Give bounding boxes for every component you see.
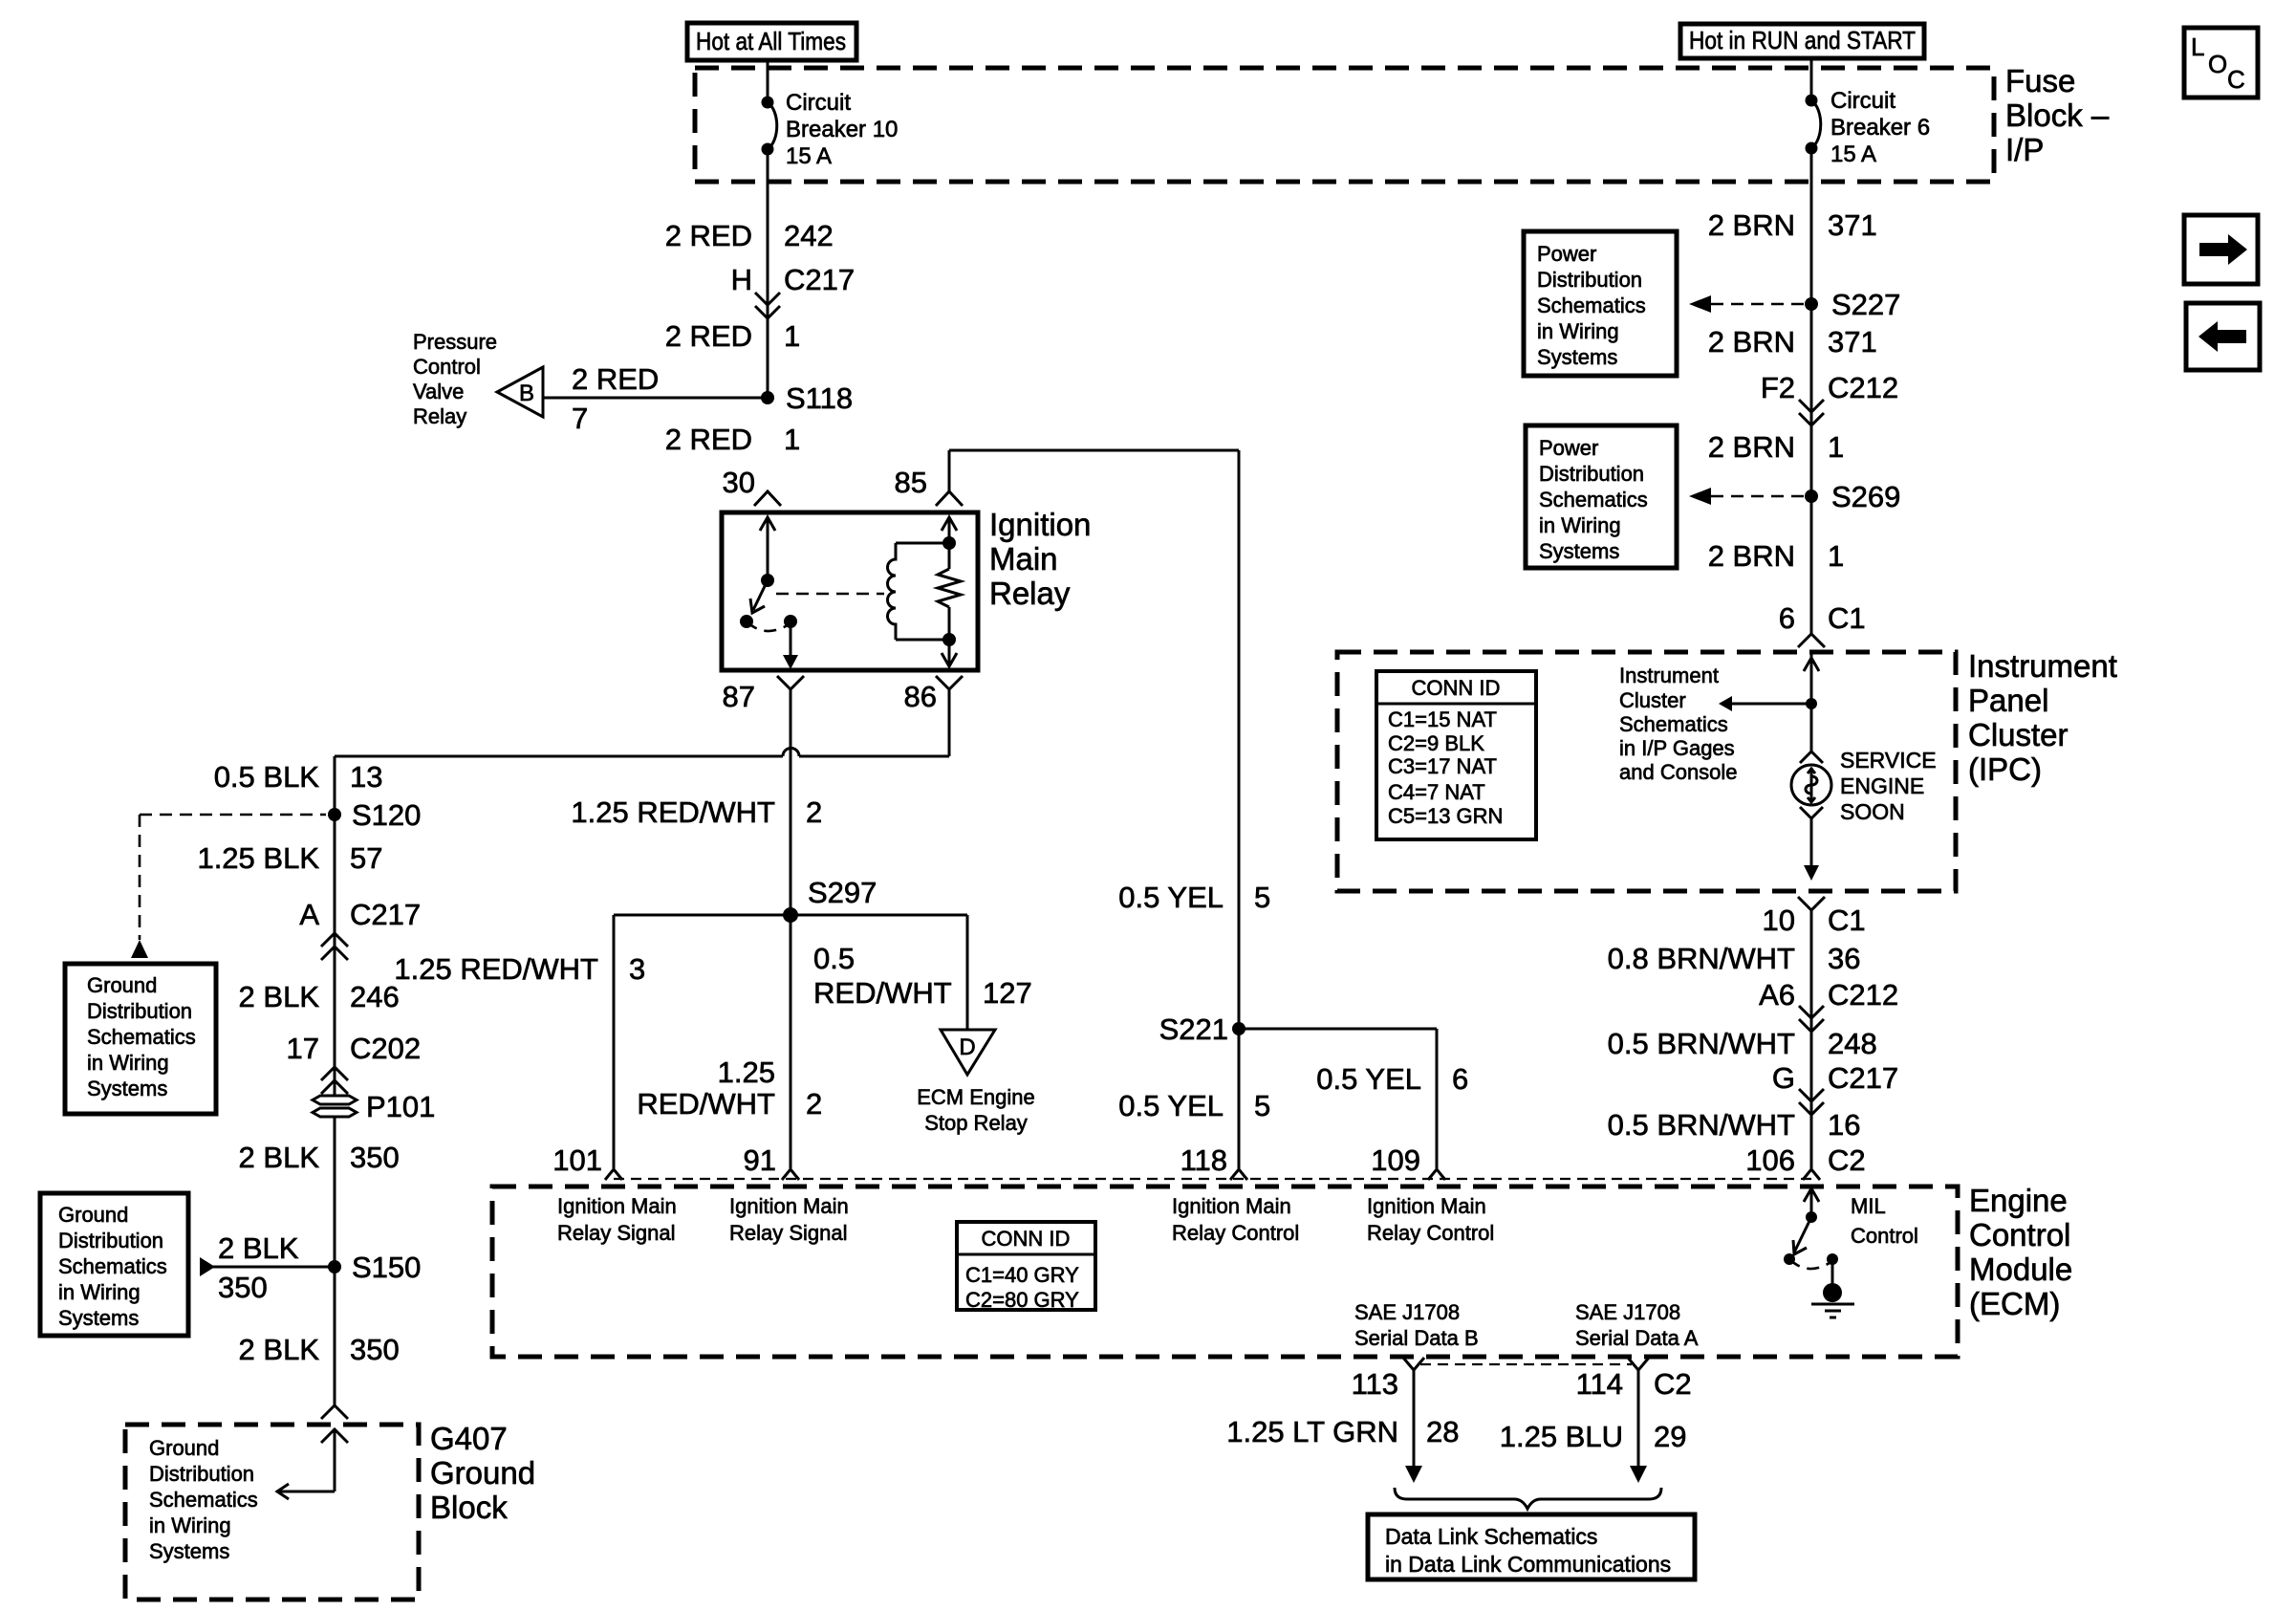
svg-text:2 BLK: 2 BLK bbox=[239, 980, 320, 1013]
svg-text:3: 3 bbox=[629, 952, 645, 986]
wire: ground path corner down from 86 feed bbox=[334, 756, 336, 1096]
svg-text:RED/WHT: RED/WHT bbox=[637, 1087, 775, 1121]
wire: pin 87 down to S297 bbox=[790, 689, 792, 915]
svg-text:5: 5 bbox=[1254, 881, 1270, 914]
node: junction to instrument cluster schematics bbox=[1806, 698, 1817, 709]
connector C1 pin 10 label bbox=[1763, 903, 1866, 937]
svg-text:CONN ID: CONN ID bbox=[982, 1227, 1071, 1251]
wire label: 2 BLK 350 (above S150) bbox=[239, 1141, 400, 1174]
connector C1 pin 6 label bbox=[1779, 601, 1866, 635]
label box: Hot at All Times bbox=[687, 23, 856, 60]
IPC exit chevron bbox=[1798, 897, 1825, 910]
svg-text:85: 85 bbox=[895, 466, 927, 499]
label: Ignition Main Relay Signal (pin 101) bbox=[557, 1194, 677, 1245]
svg-text:371: 371 bbox=[1828, 325, 1877, 359]
grommet P101 bbox=[313, 1090, 435, 1123]
svg-text:S221: S221 bbox=[1159, 1012, 1228, 1046]
label: SAE J1708 Serial Data B bbox=[1354, 1300, 1479, 1350]
svg-text:Relay: Relay bbox=[989, 576, 1071, 611]
svg-text:C2=80 GRY: C2=80 GRY bbox=[965, 1288, 1079, 1312]
wire label: 0.5 BLK 13 bbox=[214, 760, 383, 794]
svg-text:Circuit: Circuit bbox=[786, 90, 851, 116]
wire: CB6 down to S227 bbox=[1810, 148, 1813, 304]
svg-text:Distribution: Distribution bbox=[1537, 268, 1642, 292]
svg-text:Ignition Main: Ignition Main bbox=[1172, 1194, 1291, 1218]
MIL control switch bbox=[1784, 1188, 1838, 1269]
svg-text:1: 1 bbox=[1828, 539, 1844, 573]
svg-text:H: H bbox=[731, 263, 752, 296]
relay contact dashed throw arc bbox=[747, 621, 791, 631]
connector C217 pin A label bbox=[299, 898, 421, 931]
svg-text:242: 242 bbox=[784, 219, 834, 252]
svg-text:15 A: 15 A bbox=[1830, 142, 1876, 167]
splice S269 with dashed reference arrow bbox=[1689, 480, 1900, 513]
svg-text:Distribution: Distribution bbox=[149, 1462, 254, 1486]
legend box LOC bbox=[2184, 28, 2258, 98]
svg-text:MIL: MIL bbox=[1851, 1194, 1886, 1218]
svg-text:A6: A6 bbox=[1759, 978, 1795, 1012]
svg-text:0.5 BRN/WHT: 0.5 BRN/WHT bbox=[1608, 1108, 1795, 1142]
svg-text:Panel: Panel bbox=[1968, 683, 2048, 718]
svg-text:Systems: Systems bbox=[1539, 539, 1619, 563]
svg-text:Module: Module bbox=[1969, 1252, 2072, 1287]
svg-text:Schematics: Schematics bbox=[1537, 294, 1646, 317]
svg-text:371: 371 bbox=[1828, 208, 1877, 242]
svg-text:118: 118 bbox=[1180, 1143, 1227, 1177]
svg-text:Cluster: Cluster bbox=[1968, 717, 2069, 752]
svg-text:L: L bbox=[2191, 33, 2204, 61]
ECM pin entry chevrons 101 91 118 109 106 bbox=[605, 1169, 1820, 1180]
svg-text:2 RED: 2 RED bbox=[665, 319, 752, 353]
wire label: 2 BRN 1 (below S269) bbox=[1708, 539, 1845, 573]
svg-text:C217: C217 bbox=[1828, 1061, 1898, 1095]
svg-text:Serial Data A: Serial Data A bbox=[1575, 1326, 1699, 1350]
svg-text:6: 6 bbox=[1779, 601, 1795, 635]
pin 85 chevron bbox=[936, 491, 963, 506]
svg-text:C212: C212 bbox=[1828, 371, 1898, 404]
svg-text:Stop Relay: Stop Relay bbox=[924, 1111, 1028, 1135]
svg-text:Instrument: Instrument bbox=[1619, 664, 1719, 687]
label: Fuse Block - I/P bbox=[2005, 63, 2110, 167]
splice S150 bbox=[328, 1251, 421, 1284]
svg-text:in Wiring: in Wiring bbox=[58, 1280, 141, 1304]
svg-text:Distribution: Distribution bbox=[58, 1229, 163, 1252]
svg-text:2 BRN: 2 BRN bbox=[1708, 325, 1795, 359]
connector C202 inline chevrons bbox=[321, 1067, 348, 1094]
svg-text:86: 86 bbox=[904, 680, 937, 713]
svg-text:Schematics: Schematics bbox=[149, 1488, 258, 1512]
svg-text:5: 5 bbox=[1254, 1089, 1270, 1122]
connector C217 inline chevrons (lower) bbox=[1799, 1089, 1824, 1115]
wire label: 1.25 LT GRN 28 bbox=[1226, 1415, 1459, 1448]
reference box: Power Distribution Schematics in Wiring Systems (upper) bbox=[1524, 231, 1677, 376]
svg-text:G: G bbox=[1772, 1061, 1795, 1095]
svg-text:350: 350 bbox=[218, 1271, 268, 1304]
svg-text:2: 2 bbox=[806, 795, 822, 829]
svg-text:RED/WHT: RED/WHT bbox=[813, 976, 952, 1010]
svg-text:in Wiring: in Wiring bbox=[87, 1051, 169, 1075]
svg-text:Breaker 10: Breaker 10 bbox=[786, 117, 898, 142]
svg-text:SAE J1708: SAE J1708 bbox=[1354, 1300, 1460, 1324]
svg-text:Schematics: Schematics bbox=[58, 1254, 167, 1278]
svg-text:1: 1 bbox=[1828, 430, 1844, 464]
circuit breaker CB6 bbox=[1806, 88, 1931, 167]
wire: S221 branch right down to pin 109 bbox=[1239, 1029, 1437, 1168]
svg-text:17: 17 bbox=[287, 1032, 319, 1065]
ground symbol in ECM bbox=[1811, 1259, 1854, 1317]
svg-text:246: 246 bbox=[350, 980, 400, 1013]
svg-text:114: 114 bbox=[1576, 1367, 1623, 1401]
svg-text:C217: C217 bbox=[784, 263, 855, 296]
svg-text:0.8 BRN/WHT: 0.8 BRN/WHT bbox=[1608, 942, 1795, 975]
svg-text:0.5 BLK: 0.5 BLK bbox=[214, 760, 320, 794]
svg-text:Ignition: Ignition bbox=[989, 507, 1091, 542]
wire label: 2 BLK 246 bbox=[239, 980, 400, 1013]
svg-text:2 RED: 2 RED bbox=[665, 423, 752, 456]
svg-text:C4=7 NAT: C4=7 NAT bbox=[1388, 780, 1485, 804]
svg-text:57: 57 bbox=[350, 841, 382, 875]
svg-text:127: 127 bbox=[983, 976, 1032, 1010]
svg-text:Pressure: Pressure bbox=[413, 330, 497, 354]
legend box: right arrow bbox=[2184, 215, 2258, 284]
connector C2 pin 106 label bbox=[1745, 1143, 1865, 1177]
svg-text:Control: Control bbox=[413, 355, 481, 379]
svg-text:Hot at All Times: Hot at All Times bbox=[696, 27, 846, 55]
pin 30 chevron bbox=[754, 491, 781, 506]
lamp socket chevron top bbox=[1800, 751, 1823, 763]
svg-text:Ground: Ground bbox=[430, 1455, 535, 1491]
relay output contact (pin 87) bbox=[783, 615, 798, 669]
wire: pin 86 down to corner bbox=[948, 689, 951, 756]
label box: Hot in RUN and START bbox=[1680, 24, 1924, 58]
svg-text:29: 29 bbox=[1654, 1420, 1686, 1453]
svg-text:Fuse: Fuse bbox=[2005, 63, 2075, 98]
splice S227 with dashed reference arrow bbox=[1689, 288, 1900, 321]
wire: lamp down to IPC bottom with arrow bbox=[1804, 818, 1819, 881]
svg-text:113: 113 bbox=[1352, 1367, 1398, 1401]
wire: 86 corner left to ground path with hop over 87 wire bbox=[335, 749, 949, 757]
label: Engine Control Module (ECM) bbox=[1969, 1183, 2072, 1321]
svg-text:15 A: 15 A bbox=[786, 143, 832, 169]
svg-text:C2: C2 bbox=[1828, 1143, 1866, 1177]
reference box: Data Link Schematics in Data Link Communications bbox=[1368, 1514, 1695, 1579]
svg-text:B: B bbox=[519, 381, 534, 406]
svg-text:2 BRN: 2 BRN bbox=[1708, 208, 1795, 242]
svg-text:in I/P Gages: in I/P Gages bbox=[1619, 736, 1735, 760]
svg-text:Control: Control bbox=[1969, 1217, 2070, 1252]
reference box: Power Distribution Schematics in Wiring Systems (lower) bbox=[1526, 425, 1677, 568]
reference box: Ground Distribution Schematics in Wiring Systems (upper) bbox=[65, 964, 216, 1114]
svg-text:in Wiring: in Wiring bbox=[1539, 513, 1621, 537]
svg-text:Distribution: Distribution bbox=[87, 999, 192, 1023]
svg-text:1.25 BLK: 1.25 BLK bbox=[197, 841, 319, 875]
label: Ignition Main Relay Control (pin 118) bbox=[1172, 1194, 1299, 1245]
splice S221 bbox=[1159, 1012, 1245, 1046]
svg-text:350: 350 bbox=[350, 1141, 400, 1174]
svg-text:87: 87 bbox=[723, 680, 755, 713]
label: MIL Control bbox=[1851, 1194, 1918, 1248]
svg-text:7: 7 bbox=[572, 402, 588, 435]
svg-text:91: 91 bbox=[744, 1143, 776, 1177]
reference arrow wire into S150 bbox=[200, 1231, 335, 1304]
svg-text:0.5 BRN/WHT: 0.5 BRN/WHT bbox=[1608, 1027, 1795, 1060]
svg-text:Systems: Systems bbox=[1537, 345, 1617, 369]
svg-text:(ECM): (ECM) bbox=[1969, 1286, 2060, 1321]
wire: S297 horizontal bbox=[614, 914, 967, 917]
wire: IPC to ECM bbox=[1810, 910, 1813, 1168]
wire label: 1.25 BLK 57 bbox=[197, 841, 382, 875]
ECM exit chevron pin 114 bbox=[1628, 1358, 1649, 1370]
thin dashed pin rail along ECM top bbox=[614, 1178, 1811, 1180]
svg-text:1.25 BLU: 1.25 BLU bbox=[1500, 1420, 1623, 1453]
svg-text:0.5 YEL: 0.5 YEL bbox=[1118, 881, 1224, 914]
svg-text:28: 28 bbox=[1426, 1415, 1459, 1448]
connector C217 inline chevrons bbox=[755, 293, 780, 318]
svg-text:1.25 RED/WHT: 1.25 RED/WHT bbox=[571, 795, 775, 829]
wire: P101 down to G407 bbox=[334, 1117, 336, 1405]
svg-text:SERVICE: SERVICE bbox=[1840, 748, 1937, 773]
terminal D triangle ECM Engine Stop Relay bbox=[941, 1030, 995, 1075]
svg-text:Systems: Systems bbox=[58, 1306, 139, 1330]
label: Instrument Panel Cluster (IPC) bbox=[1968, 648, 2117, 787]
svg-text:2 BRN: 2 BRN bbox=[1708, 430, 1795, 464]
svg-text:0.5 YEL: 0.5 YEL bbox=[1316, 1062, 1421, 1096]
wire: from Hot at All Times into fuse block bbox=[767, 60, 769, 102]
reference box: Ground Distribution Schematics in Wiring Systems (lower) bbox=[40, 1193, 188, 1336]
svg-text:Schematics: Schematics bbox=[1539, 488, 1648, 512]
label: SERVICE ENGINE SOON bbox=[1840, 748, 1937, 824]
svg-text:S269: S269 bbox=[1831, 480, 1900, 513]
svg-text:Engine: Engine bbox=[1969, 1183, 2068, 1218]
wire label: 0.5 BRN/WHT 16 bbox=[1608, 1108, 1861, 1142]
svg-text:SAE J1708: SAE J1708 bbox=[1575, 1300, 1680, 1324]
instrument panel cluster dashed box bbox=[1337, 652, 1956, 891]
svg-text:C3=17 NAT: C3=17 NAT bbox=[1388, 754, 1497, 778]
svg-text:106: 106 bbox=[1745, 1143, 1795, 1177]
CONN ID table (IPC) bbox=[1376, 671, 1536, 839]
wire label: 1.25 RED/WHT 2 (above S297) bbox=[571, 795, 822, 829]
wire label: 0.8 BRN/WHT 36 bbox=[1608, 942, 1861, 975]
label: Ignition Main Relay Control (pin 109) bbox=[1367, 1194, 1494, 1245]
label: Instrument Cluster Schematics in I/P Gages and Console bbox=[1619, 664, 1738, 784]
lamp socket chevron bottom bbox=[1800, 807, 1823, 818]
relay switch common arm (pin 30) bbox=[760, 517, 775, 587]
svg-text:F2: F2 bbox=[1761, 371, 1795, 404]
label: Ignition Main Relay bbox=[989, 507, 1091, 611]
svg-text:6: 6 bbox=[1452, 1062, 1468, 1096]
svg-text:C1: C1 bbox=[1828, 601, 1866, 635]
svg-text:Relay Control: Relay Control bbox=[1367, 1221, 1494, 1245]
wire: CB10 down to S118 bbox=[767, 149, 769, 398]
connector C212 inline chevrons bbox=[1799, 400, 1824, 425]
wire: serial data B down with arrow bbox=[1405, 1370, 1422, 1483]
svg-text:Block: Block bbox=[430, 1490, 508, 1525]
svg-text:Relay Control: Relay Control bbox=[1172, 1221, 1299, 1245]
legend box: left arrow bbox=[2186, 303, 2260, 370]
wire label: 2 BRN 371 (below S227) bbox=[1708, 325, 1877, 359]
svg-text:and Console: and Console bbox=[1619, 760, 1738, 784]
wire label: 0.5 YEL 6 bbox=[1316, 1062, 1468, 1096]
svg-text:A: A bbox=[299, 898, 319, 931]
svg-text:Serial Data B: Serial Data B bbox=[1354, 1326, 1479, 1350]
svg-text:0.5: 0.5 bbox=[813, 942, 855, 975]
svg-text:in Data Link Communications: in Data Link Communications bbox=[1385, 1552, 1671, 1577]
wire: S297 right branch to ECM stop relay bbox=[966, 915, 969, 1030]
svg-text:C5=13 GRN: C5=13 GRN bbox=[1388, 804, 1503, 828]
svg-text:Ground: Ground bbox=[87, 973, 157, 997]
engine control module dashed box bbox=[492, 1186, 1958, 1357]
svg-text:I/P: I/P bbox=[2005, 132, 2044, 167]
wire: pin 85 up and across to yellow branch bbox=[949, 450, 1239, 1168]
svg-text:Ignition Main: Ignition Main bbox=[729, 1194, 849, 1218]
svg-text:30: 30 bbox=[723, 466, 755, 499]
wire: BRN into IPC bbox=[1810, 304, 1813, 634]
svg-text:Systems: Systems bbox=[87, 1077, 167, 1100]
connector C212 pin F2 label bbox=[1761, 371, 1898, 404]
svg-text:Ground: Ground bbox=[58, 1203, 128, 1227]
svg-text:C212: C212 bbox=[1828, 978, 1898, 1012]
svg-text:Data Link Schematics: Data Link Schematics bbox=[1385, 1524, 1597, 1549]
dashed reference wire from S120 bbox=[140, 815, 326, 940]
wire: S118 to pressure control valve relay bbox=[543, 397, 768, 400]
svg-text:ENGINE: ENGINE bbox=[1840, 773, 1924, 798]
svg-text:Relay: Relay bbox=[413, 404, 466, 428]
pin 86 chevron bbox=[936, 676, 963, 689]
circuit breaker CB10 bbox=[762, 90, 899, 169]
brace grouping serial data wires bbox=[1395, 1488, 1661, 1509]
relay coil resistor bbox=[938, 569, 961, 607]
svg-text:1.25: 1.25 bbox=[718, 1056, 775, 1089]
wire label: 1.25 BLU 29 bbox=[1500, 1420, 1687, 1453]
fuse block I/P dashed box bbox=[695, 68, 1994, 182]
svg-text:S118: S118 bbox=[786, 381, 853, 415]
connector C217 inline chevrons (ground path) bbox=[321, 933, 348, 960]
pin 87 chevron bbox=[777, 676, 804, 689]
label: G407 Ground Block bbox=[430, 1421, 535, 1525]
wire inside G407 with arrow bbox=[277, 1429, 335, 1499]
wire: S297 left branch down to pin 101 bbox=[613, 915, 616, 1168]
svg-text:C: C bbox=[2227, 65, 2245, 94]
wire label: 0.5 YEL 5 (below S221) bbox=[1118, 1089, 1270, 1122]
terminal B triangle to Pressure Control Valve Relay bbox=[497, 367, 543, 417]
wire: IPC entry with up arrow bbox=[1804, 654, 1819, 704]
text in G407: Ground Distribution Schematics in Wiring Systems bbox=[149, 1436, 258, 1563]
svg-text:Circuit: Circuit bbox=[1830, 88, 1895, 114]
svg-text:C1: C1 bbox=[1828, 903, 1866, 937]
svg-text:1.25 LT GRN: 1.25 LT GRN bbox=[1226, 1415, 1398, 1448]
svg-text:S150: S150 bbox=[352, 1251, 421, 1284]
wire: S297 middle down to pin 91 bbox=[790, 915, 792, 1168]
relay movable contact arm bbox=[740, 580, 768, 628]
wire label: 1.25 RED/WHT 3 bbox=[394, 952, 645, 986]
relay coil wire pin 86 side bbox=[942, 607, 957, 666]
svg-text:109: 109 bbox=[1371, 1143, 1420, 1177]
svg-text:C217: C217 bbox=[350, 898, 421, 931]
splice S118 bbox=[761, 381, 853, 415]
svg-text:2 BLK: 2 BLK bbox=[239, 1141, 320, 1174]
svg-text:P101: P101 bbox=[366, 1090, 435, 1123]
svg-text:C2=9 BLK: C2=9 BLK bbox=[1388, 731, 1484, 755]
svg-text:2 RED: 2 RED bbox=[665, 219, 752, 252]
svg-text:D: D bbox=[959, 1034, 975, 1060]
wire label: 0.5 BRN/WHT 248 bbox=[1608, 1027, 1877, 1060]
connector C217 pin G label bbox=[1772, 1061, 1898, 1095]
IPC entry chevron bbox=[1798, 634, 1825, 647]
arrow to instrument cluster schematics bbox=[1719, 696, 1811, 711]
svg-text:S297: S297 bbox=[808, 876, 877, 909]
svg-text:Distribution: Distribution bbox=[1539, 462, 1644, 486]
svg-text:1.25 RED/WHT: 1.25 RED/WHT bbox=[394, 952, 598, 986]
wire label: 2 RED 1 bbox=[665, 319, 801, 353]
svg-text:16: 16 bbox=[1828, 1108, 1860, 1142]
svg-text:Control: Control bbox=[1851, 1224, 1918, 1248]
G407 entry chevrons bbox=[321, 1405, 348, 1443]
connector C212 pin A6 label bbox=[1759, 978, 1898, 1012]
svg-text:101: 101 bbox=[552, 1143, 602, 1177]
svg-text:Main: Main bbox=[989, 541, 1058, 577]
wire label: 2 RED 7 bbox=[572, 362, 659, 435]
connector C212 inline chevrons (lower) bbox=[1799, 1006, 1824, 1032]
svg-text:Schematics: Schematics bbox=[1619, 712, 1728, 736]
G407 ground block dashed box bbox=[125, 1425, 419, 1600]
svg-text:2 BRN: 2 BRN bbox=[1708, 539, 1795, 573]
svg-text:S120: S120 bbox=[352, 798, 421, 832]
svg-text:1: 1 bbox=[784, 423, 800, 456]
svg-text:13: 13 bbox=[350, 760, 382, 794]
svg-text:10: 10 bbox=[1763, 903, 1795, 937]
wire: serial data A down with arrow bbox=[1630, 1370, 1647, 1483]
svg-text:Instrument: Instrument bbox=[1968, 648, 2117, 684]
wire: from Hot in RUN into fuse block bbox=[1810, 58, 1813, 100]
label: Pressure Control Valve Relay bbox=[413, 330, 497, 428]
svg-text:Power: Power bbox=[1537, 242, 1596, 266]
svg-text:36: 36 bbox=[1828, 942, 1860, 975]
svg-text:in Wiring: in Wiring bbox=[149, 1513, 231, 1537]
wire label: 2 BRN 1 (above S269) bbox=[1708, 430, 1845, 464]
indicator lamp SERVICE ENGINE SOON bbox=[1791, 765, 1831, 805]
wire label: 2 BLK 350 (below S150) bbox=[239, 1333, 400, 1366]
svg-text:Systems: Systems bbox=[149, 1539, 229, 1563]
ignition main relay box bbox=[722, 512, 978, 670]
svg-text:Power: Power bbox=[1539, 436, 1598, 460]
relay actuating dashed link bbox=[776, 593, 884, 596]
relay coil bbox=[888, 543, 949, 640]
svg-text:C2: C2 bbox=[1654, 1367, 1692, 1401]
wire label: 2 RED 1 (below S118) bbox=[665, 423, 801, 456]
svg-text:2 BLK: 2 BLK bbox=[218, 1231, 299, 1265]
svg-text:(IPC): (IPC) bbox=[1968, 751, 2042, 787]
svg-text:G407: G407 bbox=[430, 1421, 508, 1456]
svg-text:C1=40 GRY: C1=40 GRY bbox=[965, 1263, 1079, 1287]
svg-text:2 RED: 2 RED bbox=[572, 362, 659, 396]
svg-text:350: 350 bbox=[350, 1333, 400, 1366]
svg-text:2: 2 bbox=[806, 1087, 822, 1121]
svg-text:Relay Signal: Relay Signal bbox=[557, 1221, 676, 1245]
svg-text:Block –: Block – bbox=[2005, 98, 2110, 133]
thin dashed link under ECM between serial data pins bbox=[1420, 1363, 1632, 1365]
CONN ID table (ECM) bbox=[957, 1222, 1095, 1312]
ECM exit chevron pin 113 bbox=[1403, 1358, 1424, 1370]
label: Ignition Main Relay Signal (pin 91) bbox=[729, 1194, 849, 1245]
reference arrow to ground distribution box bbox=[131, 940, 148, 958]
wire label: 0.5 YEL 5 (above S221) bbox=[1118, 881, 1270, 914]
splice S297 bbox=[783, 876, 877, 923]
wire down to lamp bbox=[1810, 704, 1813, 751]
svg-text:ECM Engine: ECM Engine bbox=[917, 1085, 1035, 1109]
svg-text:in Wiring: in Wiring bbox=[1537, 319, 1619, 343]
svg-text:Ignition Main: Ignition Main bbox=[1367, 1194, 1486, 1218]
svg-text:C1=15 NAT: C1=15 NAT bbox=[1388, 708, 1497, 731]
